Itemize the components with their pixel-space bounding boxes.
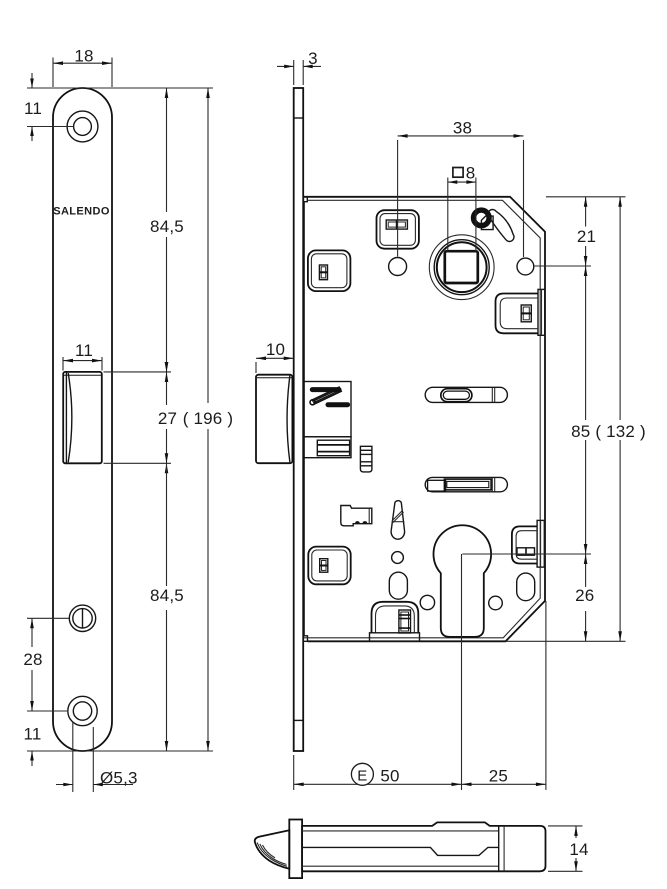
svg-text:26: 26 bbox=[575, 586, 594, 605]
svg-text:8: 8 bbox=[466, 163, 476, 182]
svg-text:25: 25 bbox=[489, 767, 508, 786]
svg-text:10: 10 bbox=[266, 340, 285, 359]
svg-text:18: 18 bbox=[74, 47, 93, 66]
svg-text:50: 50 bbox=[380, 767, 399, 786]
svg-text:27: 27 bbox=[158, 409, 177, 428]
svg-text:84,5: 84,5 bbox=[150, 217, 184, 236]
svg-text:11: 11 bbox=[24, 99, 42, 118]
svg-text:3: 3 bbox=[308, 49, 318, 68]
svg-text:Ø5,3: Ø5,3 bbox=[100, 769, 138, 788]
svg-text:( 196 ): ( 196 ) bbox=[183, 409, 234, 428]
svg-text:28: 28 bbox=[23, 650, 42, 669]
svg-text:14: 14 bbox=[569, 840, 588, 859]
svg-text:38: 38 bbox=[453, 119, 472, 138]
svg-text:SALENDO: SALENDO bbox=[53, 206, 110, 218]
svg-text:85 ( 132 ): 85 ( 132 ) bbox=[571, 422, 646, 441]
svg-text:84,5: 84,5 bbox=[150, 586, 184, 605]
svg-text:21: 21 bbox=[577, 227, 596, 246]
svg-text:E: E bbox=[357, 768, 367, 785]
svg-text:11: 11 bbox=[23, 725, 41, 744]
svg-text:11: 11 bbox=[75, 341, 93, 360]
